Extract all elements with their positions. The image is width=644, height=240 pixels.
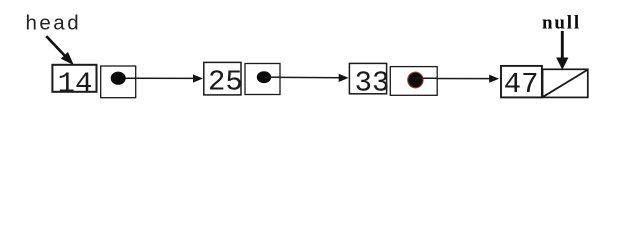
arrow null to N4 pointer box xyxy=(557,31,568,69)
arrowhead into N4 xyxy=(489,75,499,83)
node N3 pointer box xyxy=(390,67,437,96)
wire stub from N3 dot xyxy=(415,77,437,79)
node N4 pointer box xyxy=(543,69,588,97)
svg-text:head: head xyxy=(26,11,82,34)
node N3 data box xyxy=(349,63,386,93)
node N1 pointer dot xyxy=(111,72,126,85)
wire N1 to N2 xyxy=(118,77,197,79)
wire N3 to N4 xyxy=(413,78,494,80)
node N1 data box xyxy=(52,65,96,92)
wire stub from N2 dot xyxy=(265,76,281,78)
null slash in N4 pointer box xyxy=(543,70,587,97)
arrowhead into N3 xyxy=(339,74,349,82)
node N2 data box xyxy=(204,62,241,95)
arrowhead into N2 xyxy=(193,74,203,82)
svg-text:33: 33 xyxy=(355,66,390,99)
node N4 data box xyxy=(501,66,542,98)
node N2 pointer dot xyxy=(257,71,271,83)
svg-text:14: 14 xyxy=(58,68,93,101)
arrow head to node N1 xyxy=(46,36,73,64)
wire N2 to N3 xyxy=(264,76,343,79)
svg-text:null: null xyxy=(542,13,581,34)
svg-text:47: 47 xyxy=(504,68,539,101)
node N1 pointer box xyxy=(101,66,136,98)
node N2 pointer box xyxy=(245,64,280,95)
svg-text:25: 25 xyxy=(208,66,243,99)
node N3 pointer dot (red ring) xyxy=(407,72,423,89)
